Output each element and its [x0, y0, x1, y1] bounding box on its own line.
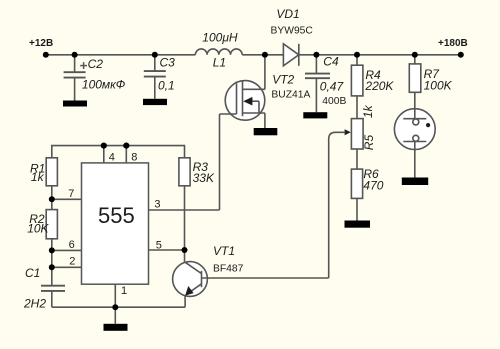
node C3/rail: [152, 52, 158, 58]
resistor R1: [46, 158, 57, 186]
svg-text:R5: R5: [362, 135, 376, 151]
svg-text:6: 6: [69, 239, 75, 251]
transistor VT2 (MOSFET BUZ41A): [220, 55, 265, 210]
ground VT2 source: [254, 128, 278, 135]
node pin8 supply: [123, 143, 129, 149]
wire VD1 cathode to +180V rail: [299, 54, 461, 56]
ground C3: [143, 99, 167, 105]
svg-text:0,47: 0,47: [320, 80, 345, 94]
resistor R2: [46, 210, 57, 239]
resistor R3: [179, 158, 190, 262]
svg-text:2Н2: 2Н2: [23, 297, 46, 311]
capacitor C1: [41, 286, 65, 308]
transistor VT1 (BF487): [173, 262, 329, 308]
svg-text:10K: 10K: [27, 222, 49, 236]
svg-text:1k: 1k: [361, 104, 375, 118]
ground neon lamp: [402, 178, 428, 186]
svg-text:100μH: 100μH: [202, 30, 238, 44]
wire pin 1 to ground: [114, 284, 116, 307]
svg-text:C1: C1: [25, 266, 40, 280]
capacitor C2: [64, 55, 87, 101]
svg-text:C3: C3: [160, 55, 176, 69]
svg-text:0,1: 0,1: [158, 78, 175, 92]
svg-text:8: 8: [131, 151, 137, 163]
svg-text:33K: 33K: [193, 171, 215, 185]
ground C4: [303, 112, 327, 118]
wire pin 3 to VT2 gate: [149, 209, 220, 211]
svg-text:BYW95C: BYW95C: [271, 26, 314, 37]
inductor L1: [195, 49, 242, 55]
svg-text:100K: 100K: [424, 79, 453, 93]
svg-text:+12В: +12В: [29, 38, 53, 49]
node C4/rail: [313, 52, 319, 58]
svg-text:L1: L1: [213, 55, 226, 69]
capacitor C3: [144, 55, 166, 99]
wire R1 to R2, pin 7: [52, 186, 82, 210]
svg-text:BF487: BF487: [213, 264, 244, 275]
svg-text:+180В: +180В: [438, 38, 468, 49]
svg-text:555: 555: [98, 203, 135, 228]
svg-text:100мкФ: 100мкФ: [82, 78, 126, 92]
wire ground stem at pin1 node: [114, 307, 116, 324]
ground symbols (GOST filled bar): [63, 99, 428, 331]
ground C2: [63, 101, 87, 107]
node R7/rail: [412, 52, 418, 58]
svg-text:400В: 400В: [322, 96, 346, 107]
svg-text:5: 5: [156, 240, 162, 252]
potentiometer R5: [329, 119, 363, 278]
node R4/rail: [354, 52, 360, 58]
capacitor C4: [305, 55, 330, 112]
wire bottom ground rail: [52, 306, 185, 308]
svg-text:VT1: VT1: [213, 244, 235, 258]
wire R2 to C1, pins 6,2: [52, 239, 82, 285]
node C2/rail: [72, 52, 78, 58]
diode VD1: [283, 44, 298, 66]
node pin2/C1: [49, 264, 55, 270]
resistor R4: [351, 55, 363, 119]
svg-text:1: 1: [121, 285, 127, 297]
wire pin 5 to R3/VT1: [149, 249, 185, 251]
IC timer 555: [82, 163, 149, 284]
node pin4 supply: [101, 143, 107, 149]
node +12V terminal: [43, 52, 49, 58]
node L1/VD1/VT2 drain: [262, 52, 268, 58]
svg-text:220K: 220K: [364, 79, 394, 93]
svg-text:VD1: VD1: [276, 7, 299, 21]
node R1/R2/pin7: [49, 196, 55, 202]
wire +12V rail: [46, 54, 196, 56]
ground R6: [345, 221, 371, 228]
ground 555/pin1: [104, 324, 128, 331]
svg-text:C2: C2: [88, 57, 104, 71]
svg-text:3: 3: [154, 199, 160, 211]
svg-text:1k: 1k: [31, 170, 45, 184]
svg-text:2: 2: [69, 256, 75, 268]
node ground rail/pin1: [112, 304, 118, 310]
wire rail L1 to VD1 node: [242, 54, 283, 56]
svg-text:BUZ41A: BUZ41A: [271, 90, 310, 101]
svg-text:470: 470: [363, 179, 383, 193]
svg-text:VT2: VT2: [272, 72, 294, 86]
svg-text:C4: C4: [323, 54, 339, 68]
neon lamp HL1: [394, 109, 435, 178]
svg-text:4: 4: [109, 151, 115, 163]
resistor R7: [409, 55, 421, 109]
resistor R6: [351, 149, 362, 221]
svg-text:7: 7: [68, 188, 74, 200]
node R2/pin6: [49, 247, 55, 253]
node pin5/R3/VT1: [182, 247, 188, 253]
node +180V terminal: [458, 52, 464, 58]
wire 555 supply (pins 4,8): [52, 146, 185, 164]
